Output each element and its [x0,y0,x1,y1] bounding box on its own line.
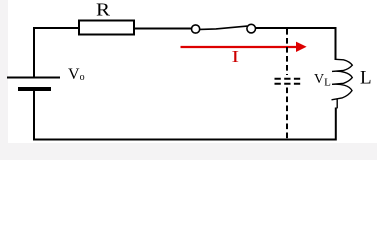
dashed capacitor branch : vertical dashed wire below plates [286,88,288,140]
dashed capacitor plate (top) [275,78,302,80]
battery V0 : long thin plate [7,77,60,79]
svg-text:L: L [360,67,372,88]
battery V0 : short thick plate [18,87,51,91]
inductor L coil [332,59,353,108]
svg-text:I: I [232,47,240,66]
wire: left vertical, battery bottom plate to bottom corner [33,91,35,140]
red current arrow shaft [181,46,299,48]
resistor R (box) [79,21,134,35]
wire: right vertical, top corner to inductor [335,28,337,59]
switch S : right terminal circle [247,24,256,33]
switch S : blade [200,26,247,29]
bottom grey margin stripe [0,143,377,160]
dashed capacitor plate (bottom) [275,83,302,85]
wire: bottom horizontal [34,139,336,141]
wire: left vertical, top corner to battery top plate [33,28,35,77]
wire: resistor to switch left terminal [134,28,192,30]
switch S : left terminal circle [192,25,200,33]
red current arrow head [297,42,306,51]
wire: switch right terminal to top-right corner [256,27,336,29]
background white area [0,0,377,160]
svg-text:R: R [96,0,110,20]
wire: top-left from corner to resistor [34,27,79,29]
wire: right vertical, inductor to bottom corner [335,109,337,140]
left grey margin stripe [0,0,8,160]
dashed capacitor branch : vertical dashed wire above plates [286,29,288,75]
